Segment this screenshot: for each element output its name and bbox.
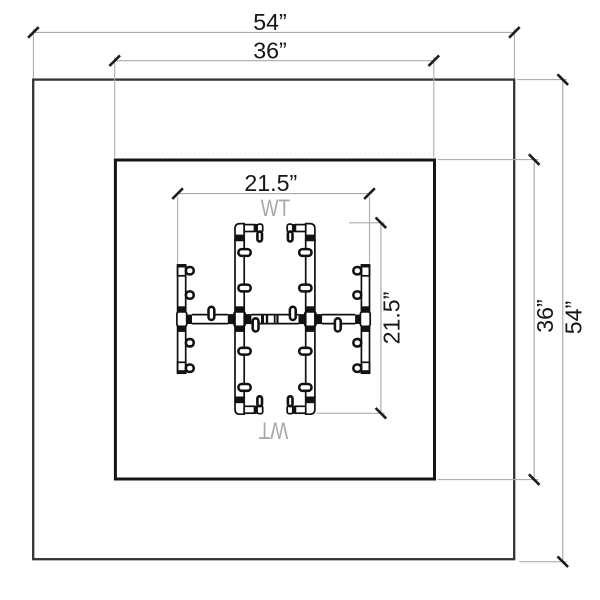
svg-text:WT: WT bbox=[261, 195, 291, 222]
inner square (36 inch pan) bbox=[115, 160, 434, 479]
dimension 54in horizontal top bbox=[28, 9, 520, 78]
corner elbow top-left bbox=[235, 224, 263, 242]
side pipe left bbox=[177, 265, 194, 374]
corner elbow top-right bbox=[287, 224, 315, 242]
burner manifold horizontal pipe segment center bbox=[251, 315, 298, 324]
cross fitting left bbox=[228, 306, 252, 332]
gas port down, center section bbox=[253, 318, 259, 331]
dimension 36in horizontal top bbox=[109, 37, 439, 157]
svg-text:54”: 54” bbox=[560, 301, 586, 335]
svg-text:WT: WT bbox=[258, 416, 288, 443]
dimension 36in vertical right bbox=[438, 154, 558, 485]
outer square (54 inch enclosure) bbox=[33, 80, 514, 560]
gas port up, center section bbox=[290, 307, 296, 320]
side pipe right bbox=[353, 265, 370, 374]
dimension 21.5in vertical (burner height) bbox=[317, 218, 405, 419]
dimension 21.5in horizontal (burner width) bbox=[172, 170, 374, 263]
burner manifold horizontal pipe segment left bbox=[192, 315, 228, 324]
main pipe left bbox=[235, 240, 251, 398]
main pipe right bbox=[299, 240, 315, 398]
burner manifold horizontal pipe segment right bbox=[322, 315, 355, 324]
svg-text:36”: 36” bbox=[253, 37, 287, 63]
dimension 54in vertical right bbox=[517, 74, 586, 567]
faint hidden lip line bbox=[115, 152, 434, 154]
svg-text:54”: 54” bbox=[253, 9, 287, 35]
svg-text:36”: 36” bbox=[532, 299, 558, 333]
center union couplings bbox=[261, 314, 279, 324]
cross fitting right bbox=[299, 306, 323, 332]
svg-text:21.5”: 21.5” bbox=[244, 170, 297, 196]
corner elbow bottom-left bbox=[235, 396, 263, 414]
corner elbow bottom-right bbox=[287, 396, 315, 414]
gas port up, left section bbox=[209, 307, 215, 320]
svg-text:21.5”: 21.5” bbox=[378, 292, 404, 345]
gas port down, right section bbox=[335, 318, 341, 331]
